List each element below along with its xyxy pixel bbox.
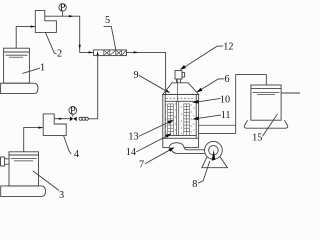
tank 15 liquid level	[253, 91, 280, 93]
svg-text:P: P	[70, 105, 76, 116]
bottom grid	[165, 135, 196, 137]
tank 1 rim	[4, 51, 30, 53]
tank 15 rim	[251, 87, 281, 89]
svg-text:8: 8	[192, 179, 197, 190]
label 10 leader	[198, 98, 220, 101]
tank 1 liquid level	[6, 54, 28, 56]
reactor body 6	[163, 94, 199, 138]
wire pump2 outlet	[45, 16, 94, 52]
pump 4 body	[43, 114, 66, 135]
flow element (three coils)	[79, 117, 82, 120]
tank 1 body	[4, 48, 30, 83]
tank 3 liquid level	[11, 158, 38, 160]
tank 3 rim	[9, 154, 39, 156]
svg-text:2: 2	[57, 48, 62, 59]
shaft	[177, 79, 179, 101]
label 8 leader	[198, 161, 210, 183]
inner walls	[164, 94, 166, 138]
arrow into reactor dome (feed)	[165, 89, 170, 93]
mixer internals	[104, 50, 126, 56]
tank 3 side stub	[1, 157, 5, 166]
wire pump4 outlet	[54, 118, 70, 120]
svg-text:4: 4	[74, 149, 79, 160]
pump 2 body	[35, 10, 56, 32]
svg-text:10: 10	[220, 95, 230, 106]
tank 15 pedestal	[244, 120, 288, 128]
arrow on pump2 outlet	[69, 15, 74, 17]
label 4 leader	[64, 135, 72, 154]
bottom outlet elbow 7	[171, 148, 205, 154]
svg-text:13: 13	[128, 132, 138, 143]
reactor motor 12	[175, 71, 182, 79]
pressure gauge P on pump2 outlet	[59, 2, 66, 16]
label 9 leader	[139, 75, 167, 91]
svg-text:5: 5	[105, 15, 110, 26]
wire tank1 riser	[16, 27, 35, 49]
label 14 leader	[136, 136, 166, 152]
svg-text:12: 12	[223, 42, 233, 53]
svg-text:P: P	[60, 2, 66, 13]
label 11 leader	[198, 115, 221, 118]
pressure gauge P on pump4 outlet	[69, 105, 77, 116]
label 7 leader	[145, 150, 170, 164]
label 13 leader	[139, 122, 169, 136]
wire tank3 riser	[24, 128, 43, 152]
svg-text:3: 3	[59, 190, 64, 200]
packing column right (11)	[184, 104, 190, 136]
label 6 leader	[201, 79, 224, 90]
top grid	[165, 100, 196, 102]
label 12 leader	[184, 46, 223, 67]
foam line	[166, 97, 195, 99]
tank 1 pedestal base	[1, 83, 38, 93]
tank 3 body	[9, 152, 39, 186]
valve (solid bowtie)	[70, 117, 73, 122]
arrow into mixer left	[89, 51, 94, 53]
pump 8	[205, 141, 223, 159]
reactor dome	[163, 83, 199, 95]
arrow down on drop to mixer	[79, 45, 81, 50]
arrow on pump4 outlet	[59, 118, 64, 120]
arrow into pump 2	[31, 25, 36, 27]
bubbles dots	[165, 103, 194, 134]
arrow dash after mixer	[134, 51, 139, 53]
reactor dished bottom	[169, 143, 184, 148]
label 5 leader	[104, 26, 116, 49]
svg-text:15: 15	[252, 133, 262, 144]
svg-text:9: 9	[133, 70, 138, 81]
reactor neck	[176, 79, 178, 83]
label 1 leader	[22, 68, 39, 73]
tank 15 outlet wire	[281, 92, 300, 94]
wire mixer outlet to reactor	[126, 52, 165, 94]
label 2 leader	[45, 32, 56, 54]
tank 3 pedestal base	[1, 186, 46, 197]
tank 15 body	[251, 85, 281, 120]
svg-text:11: 11	[221, 110, 231, 121]
vessel lower chamber walls	[162, 138, 164, 147]
svg-text:7: 7	[139, 160, 144, 171]
svg-text:14: 14	[126, 147, 136, 158]
arrow up into mixer bottom	[97, 51, 99, 55]
svg-text:6: 6	[224, 74, 229, 85]
arrow into pump 4	[39, 127, 44, 129]
static mixer 5 body	[94, 50, 127, 56]
wire coils to mixer riser	[88, 56, 97, 119]
label 15 leader	[263, 114, 278, 136]
wire reactor side outlet to tank 15	[199, 124, 236, 126]
packing column left (10)	[168, 104, 174, 136]
svg-text:1: 1	[40, 63, 45, 74]
label 3 leader	[33, 171, 59, 191]
